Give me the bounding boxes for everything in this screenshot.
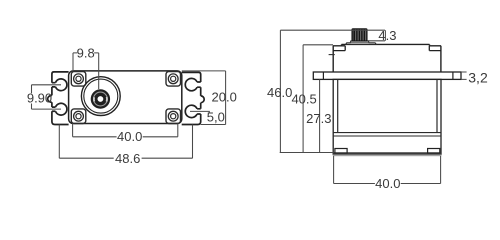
dimension 3,2: [461, 72, 467, 79]
svg-text:40.0: 40.0: [375, 176, 400, 191]
screw pod bottom-left: [71, 109, 86, 124]
dimension 48.6: [59, 125, 192, 159]
right ear slot top: [185, 78, 197, 90]
spline base: [346, 41, 377, 45]
bottom edge: [333, 152, 441, 154]
right ear: [182, 72, 204, 124]
foot left: [335, 149, 347, 153]
svg-text:4.3: 4.3: [378, 28, 396, 43]
spline shaft (knurled): [352, 29, 367, 41]
dimension 20.0 and 5,0: [182, 71, 226, 125]
svg-text:40.5: 40.5: [291, 92, 316, 107]
svg-text:27.3: 27.3: [306, 111, 331, 126]
screw hole bottom-right: [168, 111, 178, 121]
svg-text:9.90: 9.90: [27, 91, 52, 106]
svg-text:40.0: 40.0: [117, 129, 142, 144]
dimension 9.8: [73, 53, 99, 89]
screw pod top-right: [166, 72, 181, 87]
left ear slot bottom: [56, 103, 67, 115]
screw hole top-left: [74, 74, 84, 84]
svg-text:3,2: 3,2: [468, 69, 488, 85]
output shaft circles: [81, 77, 120, 116]
40.5 extension line: [303, 44, 333, 46]
servo body (top view): [69, 71, 182, 124]
corner tab left: [333, 46, 345, 51]
small step stub left: [329, 54, 335, 56]
foot right: [428, 149, 440, 153]
lower body: [333, 79, 441, 154]
dimension 27.3: [319, 79, 321, 152]
corner tab right: [429, 46, 441, 51]
left ear slot top: [56, 79, 67, 91]
screw hole bottom-left: [74, 111, 84, 121]
flange (mounting tab): [313, 72, 461, 79]
left ear: [48, 72, 69, 125]
svg-text:5,0: 5,0: [207, 110, 225, 125]
screw hole top-right: [168, 74, 178, 84]
screw pod top-left: [71, 72, 86, 87]
screw pod bottom-right: [166, 109, 181, 124]
svg-text:9.8: 9.8: [77, 45, 95, 60]
dimension 4,3: [368, 30, 386, 41]
dimension 40.0 (left view): [73, 124, 178, 137]
output shaft hub (dark bearing ring): [91, 89, 110, 108]
right ear slot bottom: [185, 105, 197, 117]
dimension 46.0: [280, 30, 385, 152]
svg-text:20.0: 20.0: [212, 89, 237, 104]
case seam lines: [333, 133, 441, 136]
svg-text:48.6: 48.6: [115, 151, 140, 166]
upper case: [333, 44, 441, 72]
dimension 9.90: [32, 85, 62, 109]
svg-text:46.0: 46.0: [267, 85, 292, 100]
left ear tab bump: [48, 95, 52, 102]
dimension 40.5: [302, 45, 304, 153]
dimension 40.0 (right view): [334, 156, 441, 184]
right ear tab bump: [201, 96, 204, 103]
